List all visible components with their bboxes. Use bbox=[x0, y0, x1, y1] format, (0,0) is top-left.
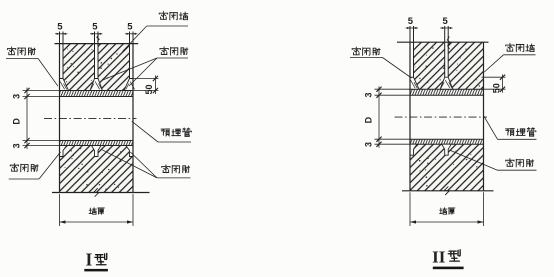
leaders to stub2 and stub3 bbox=[102, 150, 157, 178]
extension line bbox=[23, 145, 60, 147]
label pre-embedded-pipe (I) bbox=[161, 129, 170, 136]
dim tick bbox=[376, 142, 381, 147]
extension line bbox=[375, 143, 411, 145]
label mibi-rib top-left (I) bbox=[7, 47, 15, 55]
svg-text:5: 5 bbox=[57, 22, 63, 33]
leader to pipe end (II) bbox=[484, 116, 498, 139]
leader to stub2 (II) bbox=[450, 150, 498, 170]
wall right edge bbox=[132, 44, 134, 193]
wall thickness extension lines bbox=[409, 192, 411, 226]
dim tick bbox=[24, 94, 29, 99]
wall right edge bbox=[483, 42, 485, 191]
diagram-II bottom rib stub 2 bbox=[442, 144, 452, 155]
diagram-II wall bottom edge line bbox=[402, 190, 494, 192]
diagram-I sealing rib channel 3 bbox=[130, 44, 133, 78]
leader into wall top bbox=[123, 26, 147, 52]
label mibi-rib mid-right (I) bbox=[160, 47, 168, 55]
dimension chain 3/D/3 line bbox=[378, 86, 380, 148]
concrete speckle dots bbox=[443, 67, 445, 69]
diagram-I wall bottom edge line bbox=[52, 192, 150, 194]
wall left edge bbox=[409, 42, 411, 191]
rib 3 anchor foot bbox=[124, 79, 133, 91]
concrete speckle dots bbox=[84, 52, 85, 53]
break mark on bottom line bbox=[94, 188, 98, 197]
rib 3 width dim 5 bbox=[125, 33, 137, 35]
svg-text:D: D bbox=[12, 118, 22, 125]
break mark on bottom line bbox=[445, 186, 449, 195]
wall left edge bbox=[59, 44, 61, 193]
label mibi-wall top-right (I) bbox=[159, 11, 167, 19]
dim tick bbox=[376, 137, 381, 142]
leader to rib1 foot (II) bbox=[383, 58, 412, 79]
diagram-II hatched wall block top (concrete) bbox=[410, 42, 484, 89]
svg-text:5: 5 bbox=[92, 22, 98, 33]
extension line bbox=[375, 138, 411, 140]
diagram-II pipe bottom wall band (steel, dense hatch) bbox=[410, 139, 484, 144]
diagram-I bottom rib stub 2 bbox=[92, 146, 102, 157]
svg-text:50: 50 bbox=[144, 84, 154, 94]
pipe centerline (dash-dot) bbox=[44, 117, 137, 119]
label pre-embedded-pipe (II) bbox=[506, 129, 515, 136]
50 dim line bbox=[502, 74, 504, 93]
svg-text:5: 5 bbox=[408, 16, 414, 27]
diagram-I sealing rib channel 2 bbox=[95, 44, 98, 78]
extension line bbox=[23, 96, 60, 98]
rib 2 width dim 5 bbox=[90, 33, 102, 35]
wall thickness dim line with arrows bbox=[60, 221, 134, 223]
rib 2 anchor foot bbox=[440, 77, 453, 89]
label mibi-rib top-left (II) bbox=[352, 47, 360, 55]
leader to pipe end bbox=[132, 121, 158, 142]
diagram-II sealing rib channel 1 bbox=[410, 43, 413, 77]
dim tick bbox=[24, 88, 29, 93]
diagram-I hatched wall block top (concrete) bbox=[60, 44, 134, 91]
diagram-II bottom rib stub 1 bbox=[410, 144, 417, 155]
dim tick bbox=[24, 143, 29, 148]
extension line bbox=[23, 140, 60, 142]
svg-text:D: D bbox=[364, 116, 374, 123]
label mibi-rib bottom-right (II) bbox=[506, 159, 514, 167]
diagram-I hatched wall block bottom (concrete) bbox=[60, 146, 134, 193]
svg-text:5: 5 bbox=[443, 16, 449, 27]
rib 1 width dim 5 bbox=[406, 27, 418, 29]
label mibi-wall (II) bbox=[506, 43, 514, 51]
extension line bbox=[375, 94, 411, 96]
rib 2 anchor foot bbox=[90, 79, 103, 91]
diagram-II pipe top wall band (steel, dense hatch) bbox=[410, 89, 484, 95]
50 dim line bbox=[154, 76, 156, 95]
extension line bbox=[23, 90, 60, 92]
diagram-II hatched wall block bottom (concrete) bbox=[410, 144, 484, 191]
diagram-I sealing rib channel 1 bbox=[60, 44, 63, 78]
diagram-I pipe top wall band (steel, dense hatch) bbox=[60, 91, 134, 97]
diagram-I bottom rib stub 1 bbox=[60, 146, 67, 157]
50 dim extension lines bbox=[482, 76, 506, 78]
diagram-I wall top edge line bbox=[55, 43, 139, 45]
svg-text:3: 3 bbox=[364, 92, 374, 97]
diagram-II wall top edge line bbox=[397, 41, 489, 43]
pipe centerline (dash-dot) bbox=[395, 116, 488, 118]
leader to stub1 bbox=[39, 152, 61, 179]
dim tick bbox=[376, 93, 381, 98]
label wall-thickness (qiang hou) bbox=[440, 208, 447, 215]
rib 1 width dim 5 bbox=[55, 33, 67, 35]
svg-text:5: 5 bbox=[127, 22, 133, 33]
rib 1 anchor foot bbox=[410, 77, 419, 89]
diagram-I bottom rib stub 3 bbox=[126, 146, 133, 157]
wall thickness dim line with arrows bbox=[410, 221, 484, 223]
extension line bbox=[375, 88, 411, 90]
svg-text:50: 50 bbox=[491, 83, 501, 93]
squiggle mark at rib2 top (I) bbox=[97, 35, 100, 42]
leader into wall (II) bbox=[484, 55, 503, 72]
wall thickness extension lines bbox=[59, 194, 61, 226]
svg-text:3: 3 bbox=[12, 94, 22, 99]
svg-text:I: I bbox=[85, 249, 92, 269]
label mibi-rib bottom-right (I) bbox=[162, 165, 170, 173]
leader to rib1 foot bbox=[38, 58, 58, 86]
dimension chain 3/D/3 line bbox=[26, 88, 28, 150]
break squiggle at rib2 top (II) bbox=[447, 37, 450, 50]
label wall-thickness (qiang hou) bbox=[89, 208, 96, 215]
dim tick bbox=[376, 87, 381, 92]
rib 1 anchor foot bbox=[60, 79, 69, 91]
leaders to rib2 and rib3 feet bbox=[102, 58, 158, 81]
rib 2 width dim 5 bbox=[440, 27, 452, 29]
svg-text:3: 3 bbox=[364, 142, 374, 147]
diagram-II sealing rib channel 2 bbox=[445, 43, 448, 77]
label mibi-rib bottom-left (I) bbox=[10, 163, 18, 171]
dim tick bbox=[24, 138, 29, 143]
diagram-I pipe bottom wall band (steel, dense hatch) bbox=[60, 141, 134, 146]
svg-text:II: II bbox=[432, 247, 446, 266]
svg-text:3: 3 bbox=[12, 143, 22, 148]
50 dim extension lines bbox=[131, 78, 158, 80]
